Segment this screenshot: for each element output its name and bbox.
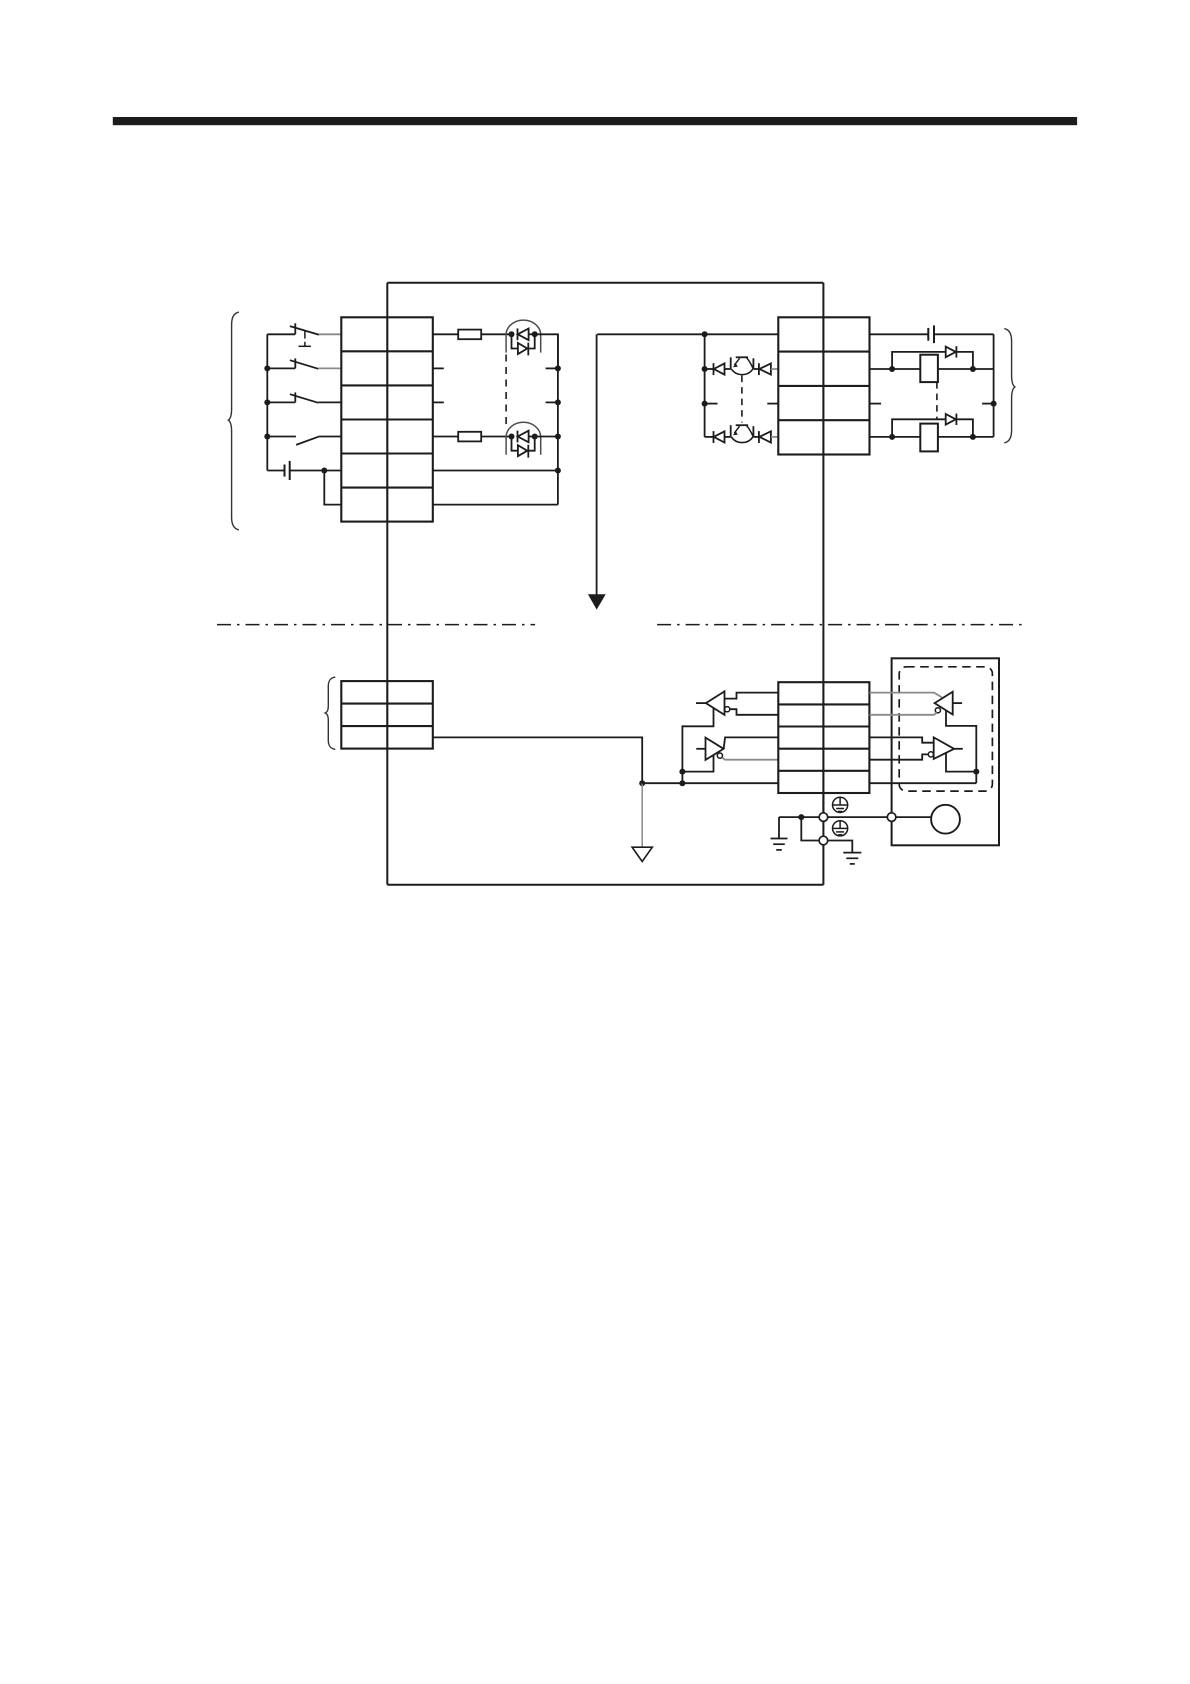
wire CN2 row1 to U1 input bbox=[725, 693, 779, 699]
switch SW2 (NC contact) bbox=[267, 358, 341, 368]
wire CN1A row2 out bbox=[870, 368, 994, 370]
output common bus vertical (right of center) bbox=[704, 334, 706, 437]
wire T3 to motor bbox=[896, 816, 932, 818]
wire CN1B row6 to bus bottom bbox=[433, 504, 558, 506]
wire CN1A row4 out bbox=[870, 436, 994, 438]
earth E2 bbox=[843, 853, 861, 864]
phototransistor output PT2 bbox=[705, 425, 779, 443]
node bus row5 bbox=[555, 468, 561, 474]
motor M bbox=[931, 805, 960, 834]
wire CN2 row2 to U3 bubble bbox=[869, 713, 936, 715]
connector CN1B terminal block bbox=[341, 317, 433, 521]
node RA2 right bbox=[970, 434, 976, 440]
photocoupler PC2 input (dome) bbox=[506, 422, 541, 455]
wire bus row2 stub bbox=[546, 367, 558, 369]
wire CN1B row3 stub bbox=[433, 401, 444, 403]
diode D6 flyback loop bbox=[892, 414, 973, 437]
node earth branch bbox=[798, 814, 804, 820]
node output bus top junction bbox=[702, 331, 708, 337]
wire PC2 to common bus bbox=[535, 436, 558, 438]
wire T1 left to earth bbox=[779, 816, 819, 818]
wire U4 common lead bbox=[946, 753, 976, 772]
wire PC1 to common bus bbox=[535, 334, 558, 368]
node bus row3 bbox=[555, 399, 561, 405]
common bus vertical (left) bbox=[557, 334, 559, 504]
wire CN1B row5 to bus bbox=[433, 470, 558, 472]
wire CN1A row3 stub left bbox=[767, 403, 778, 405]
diode D2 (PC1 reverse parallel) bbox=[512, 334, 535, 355]
wire U1 common lead bbox=[682, 708, 713, 783]
wire battery branch to row6 bbox=[324, 471, 341, 505]
node PC1 anode bbox=[509, 331, 515, 337]
wire CN2 row2 to U1 bubble bbox=[730, 709, 778, 715]
wire U4 output stub bbox=[954, 748, 963, 750]
relay coil RA2 bbox=[920, 424, 938, 452]
servo amplifier outline left edge bbox=[386, 283, 388, 885]
terminal T1 (open circle) bbox=[819, 813, 828, 822]
wire CN1A row1 to capacitor bbox=[870, 333, 929, 335]
node PC2 anode bbox=[509, 434, 515, 440]
wire T2 right to earth E2 bbox=[828, 841, 853, 853]
wire branch to T2 bbox=[801, 817, 819, 840]
wire CN1A row3 stub bbox=[870, 403, 882, 405]
switch SW3 (NC contact) bbox=[267, 392, 341, 402]
amplifier/peripheral dash-dot separator right segment bbox=[657, 624, 1023, 626]
wire CN2 row4 to U4 bubble bbox=[869, 754, 928, 759]
photocoupler PC1 input (dome) bbox=[506, 320, 541, 353]
terminal T3 (open circle on motor box) bbox=[887, 813, 896, 822]
amplifier/peripheral dash-dot separator left segment bbox=[217, 624, 535, 626]
brace CN3 (communication group) bbox=[325, 677, 335, 749]
wire CN3 LG out bbox=[433, 737, 642, 783]
wire CN1B row2 stub bbox=[433, 367, 444, 369]
driver U2 (amplifier side, points right) bbox=[706, 738, 724, 760]
wire continuation down-arrow line bbox=[596, 334, 598, 595]
arrowhead (to next diagram) bbox=[588, 594, 606, 609]
terminal T2 (open circle) bbox=[819, 836, 828, 845]
LED D1 (photocoupler PC1 diode) bbox=[518, 328, 535, 340]
node RA2 left bbox=[889, 434, 895, 440]
bubble U1 inverting input bbox=[725, 707, 730, 712]
wire CN1A row1 to junction bbox=[597, 333, 778, 335]
right brace (external output devices group) bbox=[1004, 329, 1015, 443]
node PC2 cathode bbox=[532, 434, 538, 440]
wire T1 to T2 bbox=[822, 821, 824, 836]
node LG / receiver-common junction bbox=[679, 780, 685, 786]
node output bus row2 bbox=[702, 366, 708, 372]
receiver U1 (amplifier side, points left) bbox=[706, 691, 725, 715]
wire down to earth E1 bbox=[778, 817, 780, 838]
node LG ground branch bbox=[639, 780, 645, 786]
switch SW1 (emergency stop, NC pushbutton) bbox=[267, 323, 341, 346]
node SW3 bus junction bbox=[264, 399, 270, 405]
node output bus row3 bbox=[702, 401, 708, 407]
wire divider below CN2 bbox=[822, 793, 824, 813]
driver U3 (encoder side, points left) bbox=[935, 692, 953, 715]
wire ground drop bbox=[641, 783, 643, 846]
wire CN2 row1 to U3 bbox=[869, 693, 942, 698]
LED D3 (photocoupler PC2 diode) bbox=[518, 431, 535, 443]
wire LG common to CN2 bbox=[642, 782, 778, 784]
receiver U4 (encoder side, points right) bbox=[934, 737, 954, 759]
servo amplifier outline right edge upper bbox=[822, 283, 824, 813]
connector CN3 terminal block bbox=[341, 681, 433, 749]
protective earth symbol PE1 bbox=[833, 797, 848, 812]
wire U2 bubble to CN2 row4 bbox=[722, 758, 778, 760]
capacitor C1 bbox=[928, 325, 934, 343]
external common rail vertical bbox=[993, 334, 995, 437]
node PC1 cathode bbox=[532, 331, 538, 337]
wire U2 input stub bbox=[696, 748, 705, 750]
wire R1 to PC1 bbox=[481, 333, 511, 335]
wire CN2 row3 to U4 bbox=[869, 737, 933, 742]
servo amplifier outline bottom bbox=[387, 884, 823, 886]
relay coil RA1 bbox=[920, 355, 938, 382]
wire R2 to PC2 bbox=[481, 436, 511, 438]
dashed repetition link between PC1 and PC2 bbox=[505, 355, 507, 430]
node bus row4 bbox=[555, 434, 561, 440]
wire bus row3 stub right bbox=[705, 403, 718, 405]
bubble U4 inverting input bbox=[928, 752, 933, 757]
encoder outer box bbox=[892, 658, 999, 845]
node SW2 bus junction bbox=[264, 365, 270, 371]
wire CN1B row4 out bbox=[433, 436, 458, 438]
resistor R2 bbox=[458, 432, 481, 442]
wire U2 output to CN2 row3 bbox=[724, 737, 779, 748]
node rail row3 bbox=[991, 401, 997, 407]
node battery junction bbox=[321, 468, 327, 474]
connector CN1A terminal block bbox=[778, 317, 869, 454]
node SW4 bus junction bbox=[264, 434, 270, 440]
connector CN2 terminal block bbox=[778, 682, 869, 793]
bubble U2 inverting output bbox=[717, 753, 722, 758]
switch SW4 (NO contact) bbox=[267, 437, 341, 445]
diode D4 (PC2 reverse parallel) bbox=[512, 437, 535, 458]
encoder dashed inner box bbox=[899, 667, 992, 791]
wire U1 output stub bbox=[696, 702, 706, 704]
wire U2 common lead bbox=[682, 755, 713, 772]
diode D5 flyback loop bbox=[892, 346, 973, 369]
node RA1 left bbox=[889, 366, 895, 372]
wire rail row3 stub bbox=[982, 403, 994, 405]
wire CN2 row5 to encoder common bbox=[869, 782, 976, 784]
node encoder common junction bbox=[973, 769, 979, 775]
wire T2 to outline bottom bbox=[822, 845, 824, 885]
wire bus row3 stub bbox=[546, 401, 558, 403]
servo amplifier outline top bbox=[387, 282, 823, 284]
dashed repetition link RA1 to RA2 bbox=[936, 382, 938, 419]
wire U3 common lead bbox=[946, 710, 976, 783]
phototransistor output PT1 bbox=[705, 357, 779, 375]
dashed repetition link PT1 to PT2 bbox=[741, 376, 743, 423]
left brace (external input signals group) bbox=[228, 312, 239, 530]
node RA1 right bbox=[970, 366, 976, 372]
wire T1 right to T3 bbox=[828, 816, 888, 818]
resistor R1 bbox=[458, 330, 481, 340]
bubble U3 inverting output bbox=[935, 708, 940, 713]
node receiver common rail bbox=[679, 769, 685, 775]
wire U3 input stub bbox=[953, 702, 962, 704]
wire capacitor to right rail bbox=[934, 333, 994, 335]
node bus row2 bbox=[555, 365, 561, 371]
earth E1 bbox=[771, 839, 788, 850]
header rule bbox=[113, 117, 1077, 125]
protective earth symbol PE2 bbox=[833, 821, 848, 836]
input bus wire (left vertical) bbox=[266, 334, 268, 470]
signal ground symbol (open triangle) bbox=[632, 847, 652, 861]
battery B1 bbox=[267, 461, 341, 480]
wire CN1B row1 out bbox=[433, 333, 458, 335]
